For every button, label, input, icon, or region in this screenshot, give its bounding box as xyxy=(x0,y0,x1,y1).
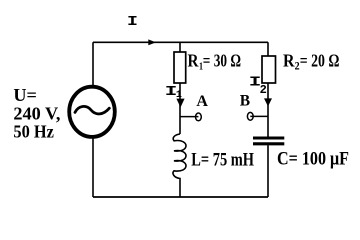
wire middle branch R1 xyxy=(179,42,181,134)
label I xyxy=(127,13,138,29)
value label L= 75 mH xyxy=(191,149,254,170)
svg-text:C= 100 μF: C= 100 μF xyxy=(277,149,349,170)
svg-text:50 Hz: 50 Hz xyxy=(13,122,54,142)
wire top xyxy=(93,41,268,43)
svg-text:1: 1 xyxy=(176,90,182,101)
svg-text:= 20 Ω: = 20 Ω xyxy=(300,51,340,71)
wire left xyxy=(92,42,94,197)
wire bottom xyxy=(93,196,268,198)
svg-text:R: R xyxy=(283,51,295,71)
svg-text:L= 75 mH: L= 75 mH xyxy=(191,149,254,170)
label A xyxy=(196,93,208,110)
svg-text:240 V,: 240 V, xyxy=(13,103,60,123)
value label R1= 30 ohm xyxy=(188,51,242,73)
resistor R2 xyxy=(262,56,276,83)
node B terminal xyxy=(247,112,268,120)
capacitor C1 xyxy=(253,138,284,144)
value label R2= 20 ohm xyxy=(283,51,340,73)
value label U= 240 V, 50 Hz xyxy=(13,85,60,142)
voltage source U xyxy=(69,87,115,137)
current arrow I1 xyxy=(176,99,184,108)
svg-text:U=: U= xyxy=(13,85,37,105)
svg-text:2: 2 xyxy=(260,83,267,97)
svg-text:I: I xyxy=(127,13,138,29)
node A terminal xyxy=(180,113,201,121)
label I2 xyxy=(249,75,267,97)
svg-text:= 30 Ω: = 30 Ω xyxy=(203,51,241,71)
current arrow I xyxy=(148,39,156,45)
svg-text:R: R xyxy=(188,51,200,71)
wire right branch R2 xyxy=(267,42,269,197)
inductor L1 xyxy=(173,134,186,197)
svg-text:A: A xyxy=(196,93,208,110)
svg-text:B: B xyxy=(240,93,250,110)
value label C= 100 uF xyxy=(277,149,349,170)
label B xyxy=(240,93,250,110)
current arrow I2 xyxy=(264,98,272,106)
resistor R1 xyxy=(174,52,186,83)
label I1 xyxy=(165,84,182,101)
